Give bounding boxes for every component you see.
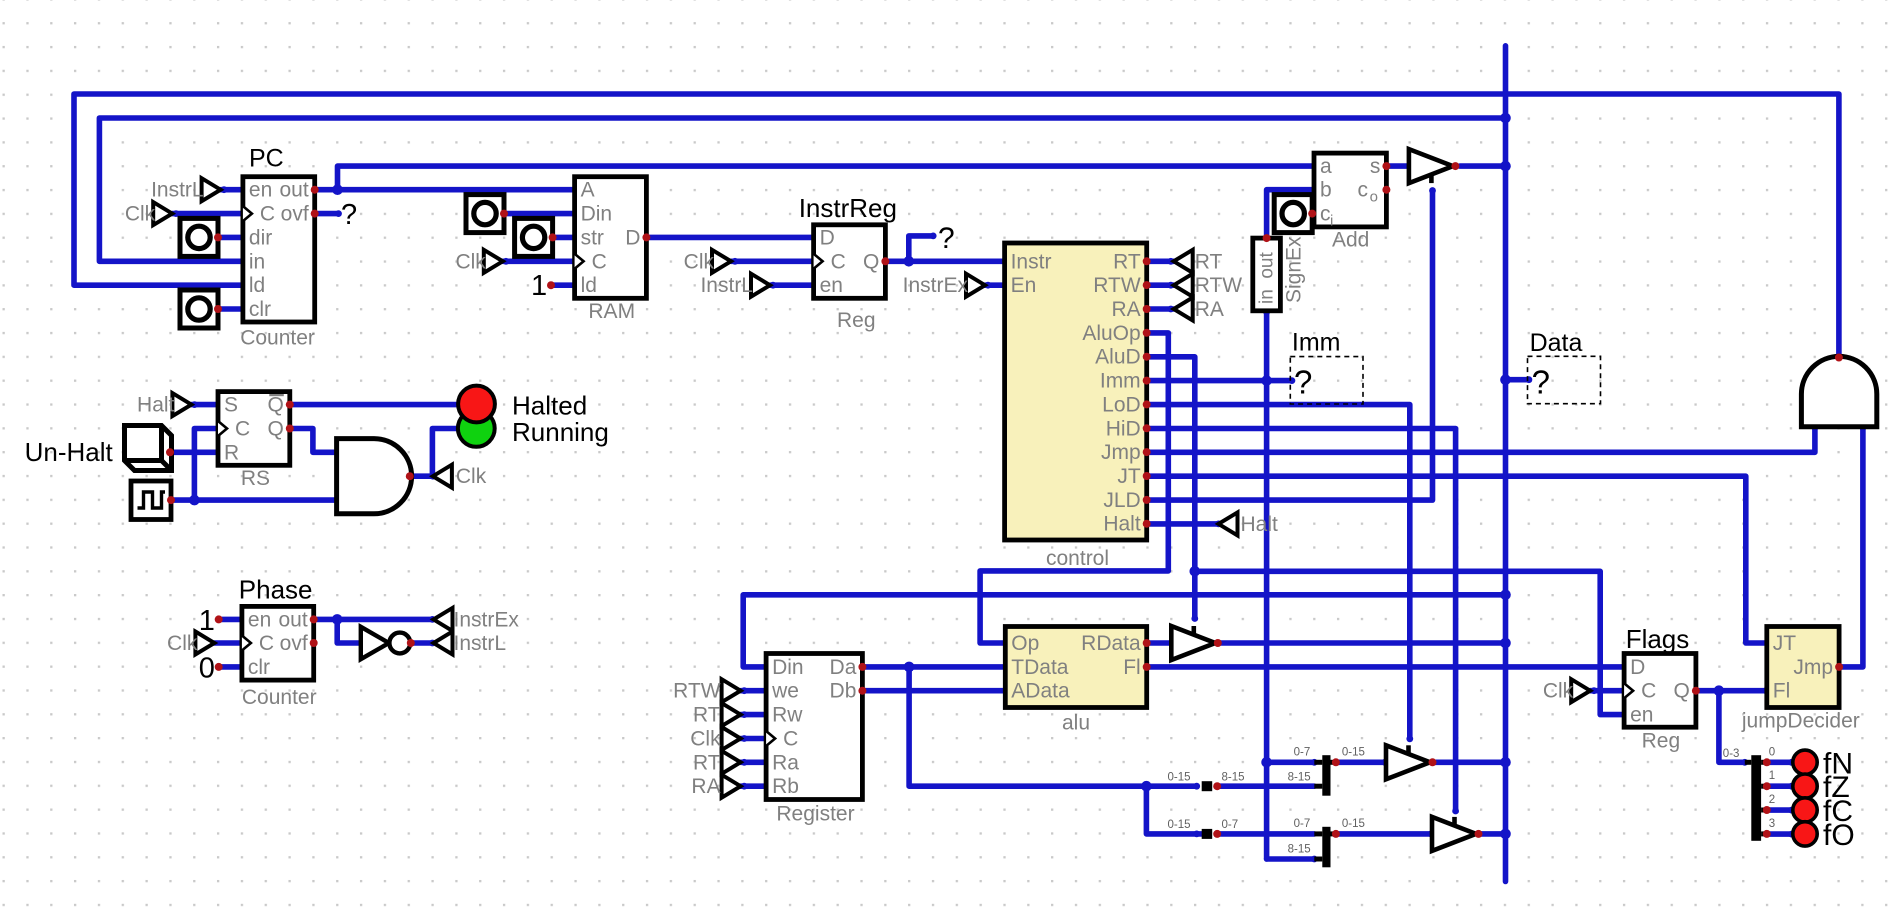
svg-text:Halt: Halt xyxy=(137,394,175,417)
svg-text:ld: ld xyxy=(581,274,597,297)
LED fN xyxy=(1793,750,1817,774)
wire data-bus to Data probe xyxy=(1506,377,1529,383)
wire const 0 to Phase clr xyxy=(219,664,242,670)
splitter combine 0-7/8-15 to 0-15 (upper) xyxy=(1322,755,1330,796)
wire Clk net to Running LED xyxy=(432,429,459,477)
driver tri-state high-byte to bus xyxy=(1432,817,1476,851)
node Da junction xyxy=(904,662,915,673)
svg-text:o: o xyxy=(1370,189,1378,206)
svg-text:Q: Q xyxy=(267,418,283,441)
svg-text:Imm: Imm xyxy=(1292,329,1341,357)
tunnel Clk to Flags C xyxy=(1571,679,1590,702)
node bus-Din junction xyxy=(1500,590,1511,601)
wire Clk tunnel to Phase C xyxy=(214,640,242,646)
svg-text:1: 1 xyxy=(531,270,547,302)
svg-text:Flags: Flags xyxy=(1626,624,1690,654)
svg-text:0-15: 0-15 xyxy=(1342,818,1365,830)
tunnel InstrL to InstrReg en xyxy=(751,274,770,297)
node clock junction xyxy=(189,495,200,506)
wire RAM D to InstrReg D xyxy=(646,235,813,241)
svg-text:RA: RA xyxy=(1195,298,1224,321)
node Flags Q junction xyxy=(1714,685,1725,696)
node bus-driver3 junction xyxy=(1500,829,1511,840)
svg-text:JT: JT xyxy=(1773,632,1797,655)
svg-text:Halt: Halt xyxy=(1103,513,1141,536)
wire Da branch to splitter4 xyxy=(1146,786,1201,834)
wire net Imm: control to probe xyxy=(1147,378,1292,384)
svg-text:Rb: Rb xyxy=(772,775,799,798)
svg-text:ovf: ovf xyxy=(280,632,308,655)
svg-text:c: c xyxy=(1358,179,1369,202)
svg-text:R: R xyxy=(224,441,239,464)
button RAM str input xyxy=(515,218,553,256)
svg-text:?: ? xyxy=(1294,364,1312,401)
svg-text:Imm: Imm xyxy=(1100,370,1141,393)
svg-text:Instr: Instr xyxy=(1011,250,1052,273)
svg-text:Clk: Clk xyxy=(167,632,198,655)
svg-text:SignEx: SignEx xyxy=(1283,236,1306,303)
tunnel RA to Register Rb xyxy=(722,775,741,798)
wire net AluOp: control to alu Op xyxy=(980,333,1168,643)
wire splitter1 8-15 to splitter2 xyxy=(1217,783,1314,789)
svg-text:en: en xyxy=(1630,704,1653,727)
svg-text:RTW: RTW xyxy=(1195,274,1243,297)
wire Halt tunnel to RS S xyxy=(191,402,218,408)
svg-text:AluOp: AluOp xyxy=(1082,322,1140,345)
svg-text:D: D xyxy=(625,226,640,249)
svg-text:0-15: 0-15 xyxy=(1168,819,1191,831)
svg-text:C: C xyxy=(1641,680,1656,703)
wire InstrReg Q to control Instr xyxy=(885,258,1004,264)
svg-text:En: En xyxy=(1011,274,1037,297)
tunnel Clk to InstrReg C xyxy=(712,250,731,273)
svg-text:en: en xyxy=(248,608,271,631)
tunnel Clk to PC C xyxy=(153,202,172,225)
wire splitter2 0-15 to driver2 xyxy=(1336,759,1385,765)
svg-text:PC: PC xyxy=(249,145,284,173)
wire RS Qn to Halted LED xyxy=(290,402,459,408)
button PC dir input xyxy=(180,218,218,256)
driver tri-state Add-s to bus xyxy=(1409,149,1453,183)
wire driver3 out to data-bus xyxy=(1479,831,1506,837)
counter Phase xyxy=(242,606,314,680)
wire clock to RS C xyxy=(194,429,218,501)
wire PC ovf to probe xyxy=(315,211,339,217)
svg-text:we: we xyxy=(771,680,799,703)
svg-text:Halted: Halted xyxy=(512,391,587,421)
jumpDecider xyxy=(1767,627,1839,708)
svg-text:8-15: 8-15 xyxy=(1288,772,1311,784)
svg-text:Data: Data xyxy=(1530,329,1583,357)
svg-text:Register: Register xyxy=(776,803,854,826)
svg-text:HiD: HiD xyxy=(1106,417,1141,440)
wire net Imm to splitter2 0-7 xyxy=(1267,759,1315,765)
button PC clr input xyxy=(180,290,218,328)
wire PC out to Add a xyxy=(338,166,1315,190)
wire clr button to PC clr xyxy=(218,306,243,312)
svg-text:RA: RA xyxy=(691,775,720,798)
flip-flop RS xyxy=(218,392,290,466)
wire RT tunnel to Register Ra xyxy=(741,759,767,765)
wire control RTW to tunnel xyxy=(1147,282,1174,288)
tunnel RT output xyxy=(1174,250,1193,273)
node bus-RData junction xyxy=(1500,638,1511,649)
wire RTW tunnel to Register we xyxy=(741,688,767,694)
node PC out junction xyxy=(332,184,343,195)
node Da splitter junction xyxy=(1141,781,1152,792)
svg-text:dir: dir xyxy=(249,226,272,249)
LED Halted (red) xyxy=(458,386,495,423)
svg-text:Halt: Halt xyxy=(1241,513,1279,536)
wire net Jmp: control to AND input xyxy=(1147,428,1815,453)
svg-text:C: C xyxy=(259,632,274,655)
svg-text:jumpDecider: jumpDecider xyxy=(1741,710,1860,733)
control unit xyxy=(1005,243,1147,540)
LED fZ xyxy=(1793,774,1817,798)
svg-text:i: i xyxy=(1330,213,1333,230)
clock generator xyxy=(131,481,171,520)
wire Un-Halt button to RS R xyxy=(170,449,218,455)
svg-text:InstrEx: InstrEx xyxy=(454,608,520,631)
svg-text:0: 0 xyxy=(1769,746,1775,758)
svg-text:InstrL: InstrL xyxy=(454,632,507,655)
svg-text:0-15: 0-15 xyxy=(1168,772,1191,784)
svg-text:?: ? xyxy=(341,199,357,231)
svg-text:C: C xyxy=(260,203,275,226)
wire driver2 out to data-bus xyxy=(1433,759,1506,765)
wire alu RData to driver1 xyxy=(1147,640,1172,646)
svg-text:Clk: Clk xyxy=(125,203,156,226)
wire control RT to tunnel xyxy=(1147,258,1174,264)
tunnel Clk to Phase C xyxy=(195,632,214,655)
node Imm junction xyxy=(1261,375,1272,386)
node bus-adder junction xyxy=(1500,161,1511,172)
wire net Imm to splitter3 8-15 xyxy=(1267,856,1315,862)
svg-text:Fl: Fl xyxy=(1123,656,1141,679)
svg-text:InstrL: InstrL xyxy=(151,179,204,202)
alu xyxy=(1005,627,1146,708)
wire Phase out to InstrEx tunnel xyxy=(314,617,433,623)
wire Clk tunnel to InstrReg C xyxy=(731,258,814,264)
svg-text:RData: RData xyxy=(1081,632,1141,655)
svg-text:0-15: 0-15 xyxy=(1342,747,1365,759)
wire RT tunnel to Register Rw xyxy=(741,712,767,718)
button Add carry-in xyxy=(1274,195,1312,233)
svg-text:?: ? xyxy=(938,222,955,255)
svg-text:en: en xyxy=(820,274,843,297)
svg-text:a: a xyxy=(1320,155,1332,178)
wire net JLD: control to driver4 enable xyxy=(1147,191,1433,501)
tunnel RT to Register Rw xyxy=(722,703,741,726)
svg-text:8-15: 8-15 xyxy=(1222,772,1245,784)
register InstrReg xyxy=(814,225,886,298)
wire Clk tunnel to Flags C xyxy=(1590,688,1624,694)
svg-text:Din: Din xyxy=(581,203,613,226)
counter PC xyxy=(243,177,315,322)
button RAM Din input xyxy=(466,195,504,233)
wire flag splitter 0 to fN LED xyxy=(1767,759,1792,765)
wire InstrReg Q probe branch xyxy=(909,236,933,261)
svg-text:Clk: Clk xyxy=(456,465,487,488)
svg-text:Rw: Rw xyxy=(772,704,803,727)
driver tri-state alu RData to bus xyxy=(1171,626,1215,660)
svg-text:Fl: Fl xyxy=(1773,680,1791,703)
wire Flags Q to flag splitter xyxy=(1719,691,1745,763)
wire Register Db to alu AData xyxy=(862,688,1005,694)
svg-text:C: C xyxy=(592,250,607,273)
svg-text:c: c xyxy=(1320,203,1331,226)
svg-text:RAM: RAM xyxy=(588,300,635,323)
svg-text:Clk: Clk xyxy=(455,250,486,273)
svg-text:Reg: Reg xyxy=(837,309,876,332)
tunnel Clk to RAM C xyxy=(484,250,503,273)
svg-text:3: 3 xyxy=(1769,818,1775,830)
svg-text:JLD: JLD xyxy=(1103,489,1140,512)
tunnel RA output xyxy=(1174,298,1193,321)
wire Register Da to alu TData xyxy=(862,664,1005,670)
wire ci button to Add ci xyxy=(1311,211,1314,217)
wire Phase out to inverter xyxy=(337,619,361,643)
svg-text:0-3: 0-3 xyxy=(1723,748,1740,760)
wire Clk tunnel to Register C xyxy=(741,736,767,742)
svg-text:clr: clr xyxy=(249,298,271,321)
svg-text:?: ? xyxy=(1532,364,1550,401)
node AluD junction xyxy=(1190,566,1201,577)
wire const 1 to RAM ld xyxy=(551,282,575,288)
svg-text:clr: clr xyxy=(248,656,270,679)
splitter flags 0-3 xyxy=(1751,755,1761,841)
svg-text:2: 2 xyxy=(1769,794,1775,806)
node bus-PCin junction xyxy=(1500,113,1511,124)
wire InstrEx tunnel to control En xyxy=(985,282,1005,288)
svg-text:Clk: Clk xyxy=(1543,680,1574,703)
wire dir button to PC dir xyxy=(218,235,243,241)
svg-text:RT: RT xyxy=(693,704,721,727)
SignEx sign extender xyxy=(1253,238,1281,311)
node Imm splitter junction xyxy=(1261,757,1272,768)
register file Register xyxy=(766,654,862,800)
svg-text:in: in xyxy=(249,250,265,273)
wire splitter4 0-7 to splitter3 xyxy=(1217,831,1314,837)
svg-text:1: 1 xyxy=(199,605,215,637)
svg-text:0: 0 xyxy=(199,653,215,685)
svg-text:D: D xyxy=(1630,656,1645,679)
wire net HiD: control to driver3 enable xyxy=(1147,429,1456,812)
wire flag splitter 1 to fZ LED xyxy=(1767,783,1792,789)
wire Din button to RAM Din xyxy=(505,211,575,217)
svg-text:Ra: Ra xyxy=(772,751,799,774)
svg-text:8-15: 8-15 xyxy=(1288,843,1311,855)
tunnel Halt to RS S xyxy=(172,393,191,416)
wire driver4 out to data-bus xyxy=(1460,163,1506,169)
splitter 0-15 to 0-7 xyxy=(1202,829,1213,839)
tunnel InstrEx to control En xyxy=(966,274,985,297)
svg-text:InstrReg: InstrReg xyxy=(799,193,897,223)
node InstrReg Q junction xyxy=(904,256,915,267)
wire driver1 out to data-bus xyxy=(1218,640,1506,646)
adder Add xyxy=(1314,153,1386,227)
svg-text:Da: Da xyxy=(830,656,857,679)
button Un-Halt xyxy=(125,426,172,471)
svg-text:RTW: RTW xyxy=(673,680,721,703)
svg-text:en: en xyxy=(249,179,272,202)
tunnel InstrL to PC en xyxy=(202,178,221,201)
svg-text:b: b xyxy=(1320,179,1332,202)
svg-text:JT: JT xyxy=(1117,465,1141,488)
svg-text:control: control xyxy=(1046,547,1109,570)
svg-text:Q: Q xyxy=(267,394,283,417)
svg-text:Clk: Clk xyxy=(684,250,715,273)
wire Flags Q to jumpDecider Fl xyxy=(1696,688,1766,694)
wire flag splitter 2 to fC LED xyxy=(1767,807,1792,813)
svg-text:Un-Halt: Un-Halt xyxy=(25,437,114,467)
node Phase out junction xyxy=(332,614,343,625)
tunnel RTW to Register we xyxy=(722,679,741,702)
svg-text:RT: RT xyxy=(1195,250,1223,273)
wire Clk tunnel to PC C xyxy=(172,211,243,217)
tunnel Clk output xyxy=(433,465,452,488)
svg-text:S: S xyxy=(224,394,238,417)
svg-text:AData: AData xyxy=(1011,680,1070,703)
wire flag splitter 3 to fO LED xyxy=(1767,831,1792,837)
wire control Halt to tunnel xyxy=(1147,521,1219,527)
svg-text:Running: Running xyxy=(512,417,609,447)
register Flags xyxy=(1624,654,1696,728)
wire jumpDecider Jmp to AND input xyxy=(1839,428,1863,667)
wire RS Q to AND gate input xyxy=(290,429,337,453)
svg-text:Phase: Phase xyxy=(239,575,313,605)
svg-text:RT: RT xyxy=(1113,250,1141,273)
svg-text:in out: in out xyxy=(1257,252,1278,304)
wire splitter3 0-15 to driver3 xyxy=(1336,831,1431,837)
wire const 1 to Phase en xyxy=(219,617,242,623)
svg-text:Op: Op xyxy=(1011,632,1039,655)
svg-text:0-7: 0-7 xyxy=(1294,818,1311,830)
wire alu Fl to Flags D xyxy=(1147,664,1624,670)
svg-text:Jmp: Jmp xyxy=(1793,656,1833,679)
AND gate jump condition xyxy=(1801,356,1876,426)
tunnel InstrL output xyxy=(434,632,453,655)
tunnel Halt output xyxy=(1219,512,1238,535)
LED fO xyxy=(1793,822,1817,846)
svg-text:InstrL: InstrL xyxy=(700,274,753,297)
svg-text:Add: Add xyxy=(1332,228,1369,251)
wire net data-bus to Register Din xyxy=(743,595,1505,667)
tunnel RTW output xyxy=(1174,274,1193,297)
svg-text:Q: Q xyxy=(1674,680,1690,703)
node bus-Data junction xyxy=(1500,374,1511,385)
wire RA tunnel to Register Rb xyxy=(741,783,767,789)
inverter NOT gate xyxy=(361,627,389,659)
wire Add s to driver4 xyxy=(1386,163,1409,169)
tunnel Clk to Register C xyxy=(722,727,741,750)
svg-text:out: out xyxy=(279,179,308,202)
wire net data-bus to PC in xyxy=(99,118,1505,261)
svg-text:1: 1 xyxy=(1769,770,1775,782)
wire net AluD branch to Flags en xyxy=(1195,571,1624,714)
svg-text:Counter: Counter xyxy=(240,327,315,350)
svg-text:Din: Din xyxy=(772,656,804,679)
svg-text:RA: RA xyxy=(1112,298,1141,321)
RAM xyxy=(575,177,647,299)
driver tri-state low-byte to bus xyxy=(1386,745,1430,779)
svg-text:C: C xyxy=(783,728,798,751)
tunnel InstrEx output xyxy=(434,608,453,631)
LED Running (green) xyxy=(458,410,495,447)
svg-text:RS: RS xyxy=(241,467,270,490)
svg-text:0-7: 0-7 xyxy=(1222,819,1239,831)
wire net JT: control to jumpDecider JT xyxy=(1147,476,1767,643)
splitter 0-15 to 8-15 xyxy=(1202,781,1213,791)
wire SignEx out to Add b xyxy=(1267,190,1314,238)
svg-text:s: s xyxy=(1370,155,1381,178)
splitter combine 0-7/8-15 to 0-15 (lower) xyxy=(1322,827,1330,868)
svg-text:ovf: ovf xyxy=(281,203,309,226)
svg-text:fO: fO xyxy=(1823,819,1855,852)
svg-text:LoD: LoD xyxy=(1102,393,1141,416)
svg-text:A: A xyxy=(581,179,595,202)
svg-text:Clk: Clk xyxy=(690,728,721,751)
wire net data-bus vertical xyxy=(1503,46,1509,882)
svg-text:str: str xyxy=(581,226,604,249)
wire control RA to tunnel xyxy=(1147,306,1174,312)
wire net jump-load: AND output to PC ld xyxy=(74,94,1839,356)
svg-text:RT: RT xyxy=(693,751,721,774)
svg-text:Q: Q xyxy=(863,250,879,273)
svg-text:Db: Db xyxy=(830,680,857,703)
svg-text:RTW: RTW xyxy=(1093,274,1141,297)
svg-text:0-7: 0-7 xyxy=(1294,747,1311,759)
wire net AluD: control to driver1 enable xyxy=(1147,357,1195,619)
svg-text:alu: alu xyxy=(1062,712,1090,735)
wire clock to AND gate input xyxy=(170,497,337,503)
AND gate run-clock xyxy=(337,439,412,514)
svg-text:C: C xyxy=(831,250,846,273)
wire Register Da branch to splitter1 xyxy=(909,667,1197,786)
wire inverter out to InstrL tunnel xyxy=(410,640,432,646)
wire Clk tunnel to RAM C xyxy=(503,258,575,264)
wire PC out to RAM A xyxy=(315,187,575,193)
node bus-driver2 junction xyxy=(1500,757,1511,768)
wire net LoD: control to driver2 enable xyxy=(1147,405,1410,739)
svg-text:out: out xyxy=(278,608,307,631)
svg-text:AluD: AluD xyxy=(1095,346,1141,369)
wire InstrL tunnel to InstrReg en xyxy=(770,282,814,288)
wire net Imm: SignEx in vertical xyxy=(1264,311,1270,859)
svg-text:ld: ld xyxy=(249,274,265,297)
svg-text:Jmp: Jmp xyxy=(1101,441,1141,464)
wire str button to RAM str xyxy=(553,235,575,241)
wire endpoint dots at input pins xyxy=(240,186,247,193)
wire InstrL tunnel to PC en xyxy=(221,187,243,193)
svg-text:C: C xyxy=(235,418,250,441)
svg-text:Reg: Reg xyxy=(1642,730,1681,753)
svg-text:Counter: Counter xyxy=(242,686,317,709)
LED fC xyxy=(1793,798,1817,822)
wire AND out to Clk tunnel xyxy=(411,473,433,479)
svg-text:TData: TData xyxy=(1011,656,1069,679)
tunnel RT to Register Ra xyxy=(722,751,741,774)
svg-text:InstrEx: InstrEx xyxy=(903,274,969,297)
svg-text:D: D xyxy=(820,226,835,249)
